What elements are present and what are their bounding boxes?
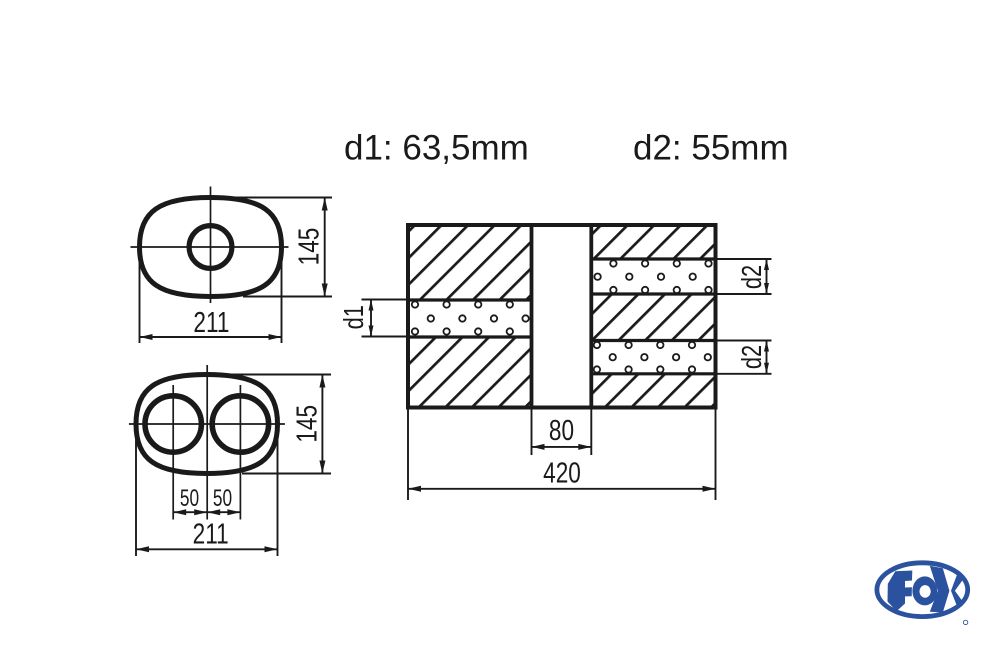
svg-text:145: 145 <box>290 405 323 443</box>
FOX logo <box>877 563 968 625</box>
top view: outer oval shell <box>140 198 282 297</box>
svg-text:d2: 55mm: d2: 55mm <box>633 129 789 168</box>
right absorber hatch lower <box>591 374 715 408</box>
dim 80: extension lines <box>531 408 533 456</box>
left absorber hatch lower <box>408 337 532 408</box>
dim d1: extension lines <box>362 299 409 301</box>
dim 145 top view: extension lines <box>229 197 332 199</box>
dim d2: dimension line <box>766 259 768 294</box>
bottom view: main vertical centerline <box>206 365 208 520</box>
dim 145 bottom view: dimension line <box>321 375 323 474</box>
d2 lower perforated band <box>591 342 715 372</box>
dim d2: extension lines <box>716 258 772 260</box>
bottom view: left tailpipe circle <box>145 396 201 452</box>
svg-text:50: 50 <box>213 485 232 511</box>
bottom view: right pipe centerline <box>239 385 241 520</box>
dim 211 bottom view: extension lines <box>135 428 137 556</box>
center gap left wall <box>530 225 534 408</box>
bottom view: left pipe centerline <box>172 385 174 520</box>
dim d2: extension lines <box>716 340 772 342</box>
center gap right wall <box>589 225 593 408</box>
dim 420: dimension line <box>408 488 716 490</box>
dim 211 top view: dimension line <box>140 336 282 338</box>
dim d1: dimension line <box>370 300 372 337</box>
FOX logo letter O <box>912 576 937 605</box>
bottom view: outer oval shell <box>136 375 278 474</box>
FOX logo registered mark <box>963 620 967 624</box>
FOX logo letter X right chevron <box>951 575 964 607</box>
svg-text:211: 211 <box>193 305 229 338</box>
FOX logo ellipse ring <box>877 563 968 617</box>
top view: vertical centerline <box>210 187 212 304</box>
d1 band borders <box>408 298 532 301</box>
FOX logo letter X left chevron <box>930 566 950 613</box>
svg-text:50: 50 <box>180 485 199 511</box>
section body outline <box>408 225 716 408</box>
dim d2: dimension line <box>766 341 768 374</box>
d1 perforated pipe band <box>408 302 532 336</box>
dim 80: dimension line <box>532 446 592 448</box>
bottom view: right tailpipe circle <box>212 396 268 452</box>
svg-text:d2: d2 <box>736 265 767 289</box>
dim 211 top view: extension lines <box>139 252 141 343</box>
svg-text:211: 211 <box>193 517 229 550</box>
d1 band perforation dots <box>412 301 418 307</box>
svg-text:80: 80 <box>549 413 574 446</box>
svg-text:d1: 63,5mm: d1: 63,5mm <box>344 129 529 168</box>
dim 145 top view: dimension line <box>324 198 326 297</box>
svg-text:d2: d2 <box>736 345 767 369</box>
bottom view: horizontal centerline <box>129 423 285 425</box>
dim 211 bottom view: dimension line <box>136 548 278 550</box>
left absorber hatch upper <box>408 225 532 300</box>
right absorber hatch middle <box>591 294 715 341</box>
FOX logo letter F <box>888 571 913 612</box>
dim 420: extension lines <box>407 408 409 501</box>
top view: inlet pipe circle d1 <box>189 226 232 269</box>
dim 145 bottom view: extension lines <box>229 374 331 376</box>
right absorber hatch upper <box>591 225 715 259</box>
d2 upper perforated band <box>591 261 715 293</box>
section body: white fill <box>408 225 716 408</box>
dim 50/50: dimension line <box>173 511 240 513</box>
svg-text:145: 145 <box>292 228 325 266</box>
svg-text:d1: d1 <box>338 305 369 329</box>
top view: horizontal centerline <box>131 246 289 248</box>
svg-text:420: 420 <box>543 456 581 489</box>
